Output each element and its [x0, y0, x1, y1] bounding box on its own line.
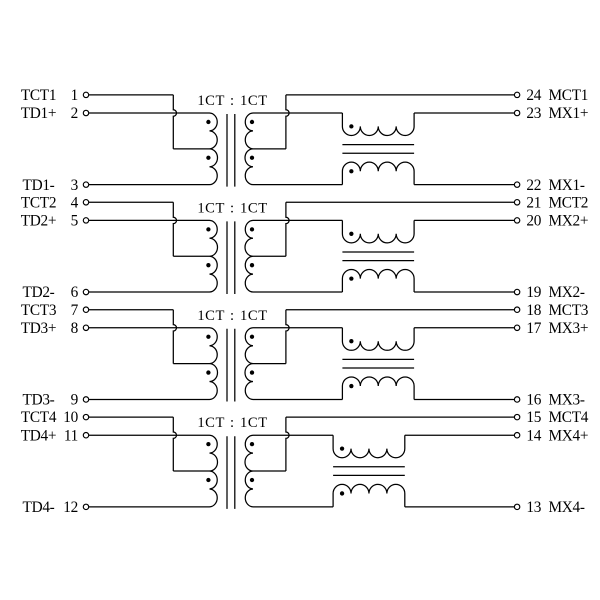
- pin 10 terminal circle: [83, 414, 88, 419]
- common-mode choke L1 bottom winding: [342, 162, 414, 185]
- wire MX2+ to pin 20: [414, 219, 514, 221]
- wire MCT vertical with hop over secondary top line: [286, 202, 289, 256]
- svg-text:21: 21: [526, 194, 541, 211]
- wire secondary top to choke L4 input: [253, 434, 333, 436]
- pin 20 terminal circle: [514, 218, 519, 223]
- pin 2 terminal circle: [83, 110, 88, 115]
- svg-text:1CT : 1CT: 1CT : 1CT: [197, 308, 267, 324]
- transformer T1 core: [227, 114, 235, 187]
- common-mode choke L4 bottom winding: [333, 484, 405, 507]
- wire secondary bottom to choke L4 input: [253, 506, 333, 508]
- transformer T1 secondary dot (top half): [250, 120, 254, 124]
- svg-text:MX3-: MX3-: [549, 392, 585, 409]
- pin 9 terminal circle: [83, 397, 88, 402]
- wire pin 12 (TD4-) to primary bottom: [89, 506, 210, 508]
- wire MX4- to pin 13: [405, 506, 515, 508]
- pin 4 terminal circle: [83, 200, 88, 205]
- pin 7 terminal circle: [83, 307, 88, 312]
- svg-text:MX4+: MX4+: [549, 427, 589, 444]
- wire MCT4 to pin 15: [286, 416, 515, 418]
- wire secondary mid to MCT vertical: [253, 470, 286, 472]
- wire pin 9 (TD3-) to primary bottom: [89, 398, 210, 400]
- transformer T3 primary winding: [210, 328, 218, 400]
- wire MCT vertical with hop over secondary top line: [286, 417, 289, 471]
- wire pin 1 (TCT1) to center-tap vertical: [89, 94, 174, 96]
- svg-text:5: 5: [71, 213, 79, 230]
- wire pin 11 (TD4+) to primary top: [89, 434, 210, 436]
- pin 1 terminal circle: [83, 92, 88, 97]
- common-mode choke L2 top winding: [342, 220, 414, 243]
- transformer T2 primary dot (top half): [206, 227, 210, 231]
- transformer T3 secondary dot (top half): [250, 335, 254, 339]
- transformer T3 primary dot (bottom half): [206, 370, 210, 374]
- pin 6 terminal circle: [83, 289, 88, 294]
- wire MX1- to pin 22: [414, 184, 514, 186]
- wire pin 4 (TCT2) to center-tap vertical: [89, 201, 174, 203]
- transformer T4 secondary dot (bottom half): [250, 478, 254, 482]
- wire center-tap horizontal to primary mid: [173, 148, 209, 150]
- svg-text:4: 4: [71, 194, 79, 211]
- svg-text:MX1+: MX1+: [549, 105, 589, 122]
- svg-text:MX1-: MX1-: [549, 177, 585, 194]
- svg-text:20: 20: [526, 213, 541, 230]
- choke L1 core: [342, 145, 414, 154]
- transformer T1 secondary dot (bottom half): [250, 156, 254, 160]
- wire secondary mid to MCT vertical: [253, 255, 286, 257]
- wire secondary bottom to choke L2 input: [253, 291, 342, 293]
- svg-text:16: 16: [526, 392, 541, 409]
- svg-text:TCT3: TCT3: [21, 302, 57, 319]
- pin 17 terminal circle: [514, 325, 519, 330]
- wire MCT vertical with hop over secondary top line: [286, 95, 289, 149]
- pin 13 terminal circle: [514, 504, 519, 509]
- pin 23 terminal circle: [514, 110, 519, 115]
- svg-text:22: 22: [526, 177, 541, 194]
- svg-text:TD1-: TD1-: [23, 177, 55, 194]
- transformer T3 secondary dot (bottom half): [250, 370, 254, 374]
- transformer T2 core: [227, 221, 235, 294]
- wire secondary bottom to choke L3 input: [253, 398, 342, 400]
- svg-text:6: 6: [71, 284, 79, 301]
- common-mode choke L4 top winding: [333, 435, 405, 458]
- svg-text:9: 9: [71, 392, 79, 409]
- transformer T3 secondary winding: [245, 328, 253, 400]
- common-mode choke L1 top winding: [342, 113, 414, 136]
- svg-text:TD2-: TD2-: [23, 284, 55, 301]
- wire MX1+ to pin 23: [414, 112, 514, 114]
- pin 5 terminal circle: [83, 218, 88, 223]
- transformer T4 secondary dot (top half): [250, 442, 254, 446]
- wire secondary mid to MCT vertical: [253, 148, 286, 150]
- wire MX3- to pin 16: [414, 398, 514, 400]
- choke L3 top winding dot: [349, 339, 353, 343]
- pin 18 terminal circle: [514, 307, 519, 312]
- svg-text:19: 19: [526, 284, 541, 301]
- svg-text:11: 11: [64, 427, 78, 444]
- svg-text:7: 7: [71, 302, 79, 319]
- choke L1 top winding dot: [349, 124, 353, 128]
- common-mode choke L2 bottom winding: [342, 270, 414, 293]
- svg-text:MCT2: MCT2: [549, 194, 589, 211]
- common-mode choke L3 bottom winding: [342, 377, 414, 400]
- svg-text:TCT4: TCT4: [21, 409, 57, 426]
- wire pin 7 (TCT3) to center-tap vertical: [89, 309, 174, 311]
- wire center-tap vertical with hop over TD2+ line: [173, 202, 176, 256]
- transformer T1 primary dot (bottom half): [206, 156, 210, 160]
- svg-text:23: 23: [526, 105, 541, 122]
- svg-text:TCT1: TCT1: [21, 87, 56, 104]
- choke L4 core: [333, 467, 405, 476]
- choke L3 core: [342, 359, 414, 368]
- transformer T2 primary dot (bottom half): [206, 263, 210, 267]
- svg-text:MCT3: MCT3: [549, 302, 589, 319]
- wire MCT vertical with hop over secondary top line: [286, 310, 289, 364]
- svg-text:12: 12: [63, 499, 78, 516]
- svg-text:24: 24: [526, 87, 541, 104]
- wire MX4+ to pin 14: [405, 434, 515, 436]
- transformer T2 secondary winding: [245, 220, 253, 292]
- wire pin 6 (TD2-) to primary bottom: [89, 291, 210, 293]
- wire center-tap horizontal to primary mid: [173, 363, 209, 365]
- svg-text:14: 14: [526, 427, 541, 444]
- pin 11 terminal circle: [83, 433, 88, 438]
- svg-text:TD2+: TD2+: [21, 213, 56, 230]
- wire center-tap horizontal to primary mid: [173, 470, 209, 472]
- wire MX2- to pin 19: [414, 291, 514, 293]
- transformer T3 core: [227, 329, 235, 402]
- svg-text:13: 13: [526, 499, 541, 516]
- svg-text:8: 8: [71, 320, 79, 337]
- svg-text:TD4+: TD4+: [21, 427, 56, 444]
- choke L1 bottom winding dot: [349, 169, 353, 173]
- svg-text:MX4-: MX4-: [549, 499, 585, 516]
- transformer T4 primary dot (bottom half): [206, 478, 210, 482]
- svg-text:TCT2: TCT2: [21, 194, 56, 211]
- wire pin 8 (TD3+) to primary top: [89, 327, 210, 329]
- svg-text:TD3-: TD3-: [23, 392, 55, 409]
- svg-text:10: 10: [63, 409, 78, 426]
- svg-text:TD4-: TD4-: [23, 499, 55, 516]
- wire secondary top to choke L2 input: [253, 219, 342, 221]
- wire center-tap horizontal to primary mid: [173, 255, 209, 257]
- transformer T4 primary dot (top half): [206, 442, 210, 446]
- choke L3 bottom winding dot: [349, 384, 353, 388]
- transformer T2 secondary dot (top half): [250, 227, 254, 231]
- wire MCT1 to pin 24: [286, 94, 515, 96]
- choke L2 top winding dot: [349, 232, 353, 236]
- svg-text:18: 18: [526, 302, 541, 319]
- transformer T1 secondary winding: [245, 113, 253, 185]
- pin 15 terminal circle: [514, 414, 519, 419]
- transformer T4 core: [227, 436, 235, 509]
- wire MCT3 to pin 18: [286, 309, 515, 311]
- svg-text:MX2-: MX2-: [549, 284, 585, 301]
- svg-text:17: 17: [526, 320, 541, 337]
- wire MCT2 to pin 21: [286, 201, 515, 203]
- wire center-tap vertical with hop over TD4+ line: [173, 417, 176, 471]
- svg-text:MX2+: MX2+: [549, 213, 589, 230]
- wire center-tap vertical with hop over TD3+ line: [173, 310, 176, 364]
- pin 22 terminal circle: [514, 182, 519, 187]
- choke L2 core: [342, 252, 414, 261]
- svg-text:1CT : 1CT: 1CT : 1CT: [197, 93, 267, 109]
- transformer T2 secondary dot (bottom half): [250, 263, 254, 267]
- svg-text:3: 3: [71, 177, 79, 194]
- transformer T4 primary winding: [210, 435, 218, 507]
- pin 24 terminal circle: [514, 92, 519, 97]
- pin 8 terminal circle: [83, 325, 88, 330]
- transformer T1 primary winding: [210, 113, 218, 185]
- transformer T1 primary dot (top half): [206, 120, 210, 124]
- wire pin 3 (TD1-) to primary bottom: [89, 184, 210, 186]
- pin 3 terminal circle: [83, 182, 88, 187]
- wire secondary bottom to choke L1 input: [253, 184, 342, 186]
- pin 16 terminal circle: [514, 397, 519, 402]
- svg-text:1: 1: [71, 87, 78, 104]
- pin 14 terminal circle: [514, 433, 519, 438]
- svg-text:MX3+: MX3+: [549, 320, 589, 337]
- pin 21 terminal circle: [514, 200, 519, 205]
- choke L2 bottom winding dot: [349, 277, 353, 281]
- common-mode choke L3 top winding: [342, 328, 414, 351]
- transformer T4 secondary winding: [245, 435, 253, 507]
- wire pin 2 (TD1+) to primary top: [89, 112, 210, 114]
- wire MX3+ to pin 17: [414, 327, 514, 329]
- transformer T3 primary dot (top half): [206, 335, 210, 339]
- svg-text:15: 15: [526, 409, 541, 426]
- wire center-tap vertical with hop over TD1+ line: [173, 95, 176, 149]
- wire secondary top to choke L1 input: [253, 112, 342, 114]
- pin 19 terminal circle: [514, 289, 519, 294]
- wire secondary top to choke L3 input: [253, 327, 342, 329]
- svg-text:2: 2: [71, 105, 78, 122]
- svg-text:1CT : 1CT: 1CT : 1CT: [197, 415, 267, 431]
- wire pin 5 (TD2+) to primary top: [89, 219, 210, 221]
- svg-text:MCT4: MCT4: [549, 409, 589, 426]
- transformer T2 primary winding: [210, 220, 218, 292]
- wire pin 10 (TCT4) to center-tap vertical: [89, 416, 174, 418]
- pin 12 terminal circle: [83, 504, 88, 509]
- svg-text:MCT1: MCT1: [549, 87, 589, 104]
- choke L4 top winding dot: [340, 446, 344, 450]
- svg-text:TD3+: TD3+: [21, 320, 56, 337]
- choke L4 bottom winding dot: [340, 491, 344, 495]
- svg-text:1CT : 1CT: 1CT : 1CT: [197, 200, 267, 216]
- wire secondary mid to MCT vertical: [253, 363, 286, 365]
- svg-text:TD1+: TD1+: [21, 105, 56, 122]
